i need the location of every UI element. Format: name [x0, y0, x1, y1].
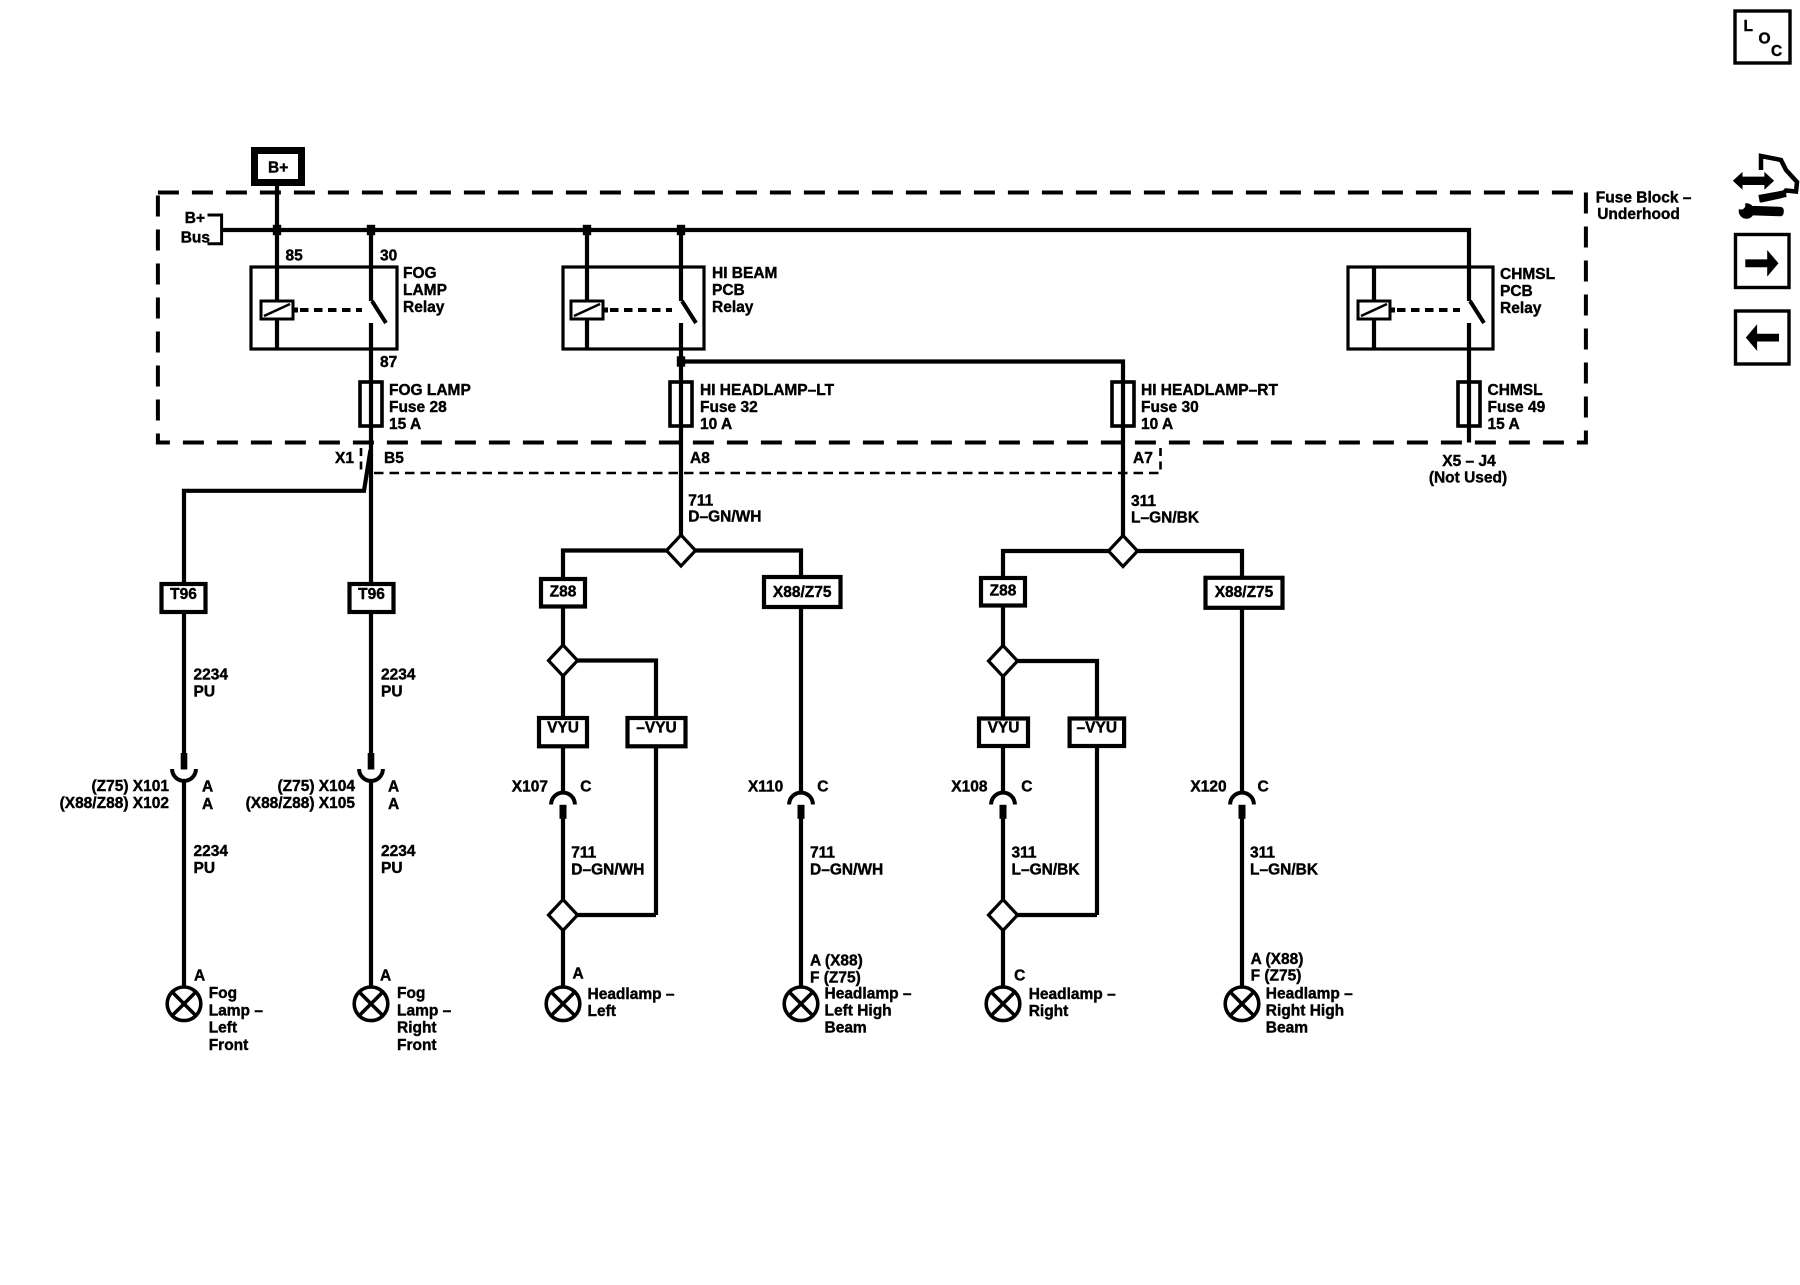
svg-text:A: A [388, 796, 399, 813]
svg-text:311: 311 [1131, 493, 1156, 510]
svg-text:X120: X120 [1190, 779, 1226, 796]
svg-text:T96: T96 [170, 586, 197, 603]
svg-text:T96: T96 [358, 586, 385, 603]
svg-text:10 A: 10 A [700, 416, 732, 433]
svg-text:–VYU: –VYU [1077, 720, 1118, 737]
svg-text:(Not Used): (Not Used) [1429, 470, 1507, 487]
svg-text:A7: A7 [1133, 450, 1153, 467]
svg-text:2234: 2234 [381, 843, 416, 860]
svg-text:(Z75) X101: (Z75) X101 [91, 778, 169, 795]
svg-text:Fuse 30: Fuse 30 [1141, 399, 1199, 416]
svg-text:Right High: Right High [1266, 1003, 1344, 1020]
svg-text:X5 – J4: X5 – J4 [1442, 453, 1496, 470]
svg-text:711: 711 [688, 492, 713, 509]
svg-text:L–GN/BK: L–GN/BK [1250, 861, 1319, 878]
svg-text:A: A [388, 779, 399, 796]
svg-text:(X88/Z88) X102: (X88/Z88) X102 [60, 795, 169, 812]
svg-text:15 A: 15 A [389, 416, 421, 433]
svg-text:Headlamp –: Headlamp – [825, 986, 912, 1003]
svg-text:Left: Left [209, 1020, 237, 1037]
svg-text:VYU: VYU [547, 720, 579, 737]
svg-text:(Z75) X104: (Z75) X104 [277, 778, 355, 795]
svg-text:C: C [1021, 779, 1032, 796]
svg-text:A (X88): A (X88) [810, 953, 863, 970]
svg-text:B+: B+ [185, 210, 205, 227]
svg-text:2234: 2234 [381, 667, 416, 684]
svg-text:Right: Right [397, 1020, 437, 1037]
svg-text:711: 711 [571, 844, 596, 861]
svg-text:30: 30 [380, 248, 397, 265]
svg-text:HI HEADLAMP–LT: HI HEADLAMP–LT [700, 382, 835, 399]
svg-text:F (Z75): F (Z75) [810, 969, 861, 986]
svg-text:Beam: Beam [1266, 1020, 1308, 1037]
svg-text:Lamp –: Lamp – [397, 1002, 452, 1019]
svg-text:Z88: Z88 [550, 584, 577, 601]
svg-text:F (Z75): F (Z75) [1251, 968, 1302, 985]
svg-text:Right: Right [1029, 1003, 1069, 1020]
svg-text:A: A [202, 779, 213, 796]
svg-text:Relay: Relay [1500, 300, 1542, 317]
svg-text:PU: PU [194, 684, 216, 701]
svg-text:Front: Front [209, 1037, 249, 1054]
svg-text:A: A [380, 968, 391, 985]
svg-text:PU: PU [381, 684, 403, 701]
svg-text:311: 311 [1012, 844, 1037, 861]
svg-text:HI HEADLAMP–RT: HI HEADLAMP–RT [1141, 382, 1278, 399]
svg-text:FOG: FOG [403, 265, 437, 282]
svg-text:O: O [1759, 31, 1771, 48]
svg-text:10 A: 10 A [1141, 416, 1173, 433]
svg-text:2234: 2234 [194, 667, 229, 684]
svg-text:Z88: Z88 [990, 583, 1017, 600]
svg-text:PU: PU [381, 860, 403, 877]
svg-text:Fuse 28: Fuse 28 [389, 399, 447, 416]
svg-text:Underhood: Underhood [1597, 206, 1680, 223]
svg-text:HI BEAM: HI BEAM [712, 265, 777, 282]
svg-text:Fog: Fog [209, 985, 237, 1002]
svg-text:A8: A8 [690, 450, 710, 467]
svg-text:X108: X108 [951, 779, 988, 796]
svg-text:Fog: Fog [397, 985, 425, 1002]
svg-text:C: C [1014, 968, 1025, 985]
svg-text:VYU: VYU [988, 720, 1020, 737]
svg-text:PCB: PCB [1500, 283, 1533, 300]
svg-text:711: 711 [810, 844, 835, 861]
svg-text:D–GN/WH: D–GN/WH [571, 861, 644, 878]
svg-text:PCB: PCB [712, 282, 745, 299]
svg-text:X88/Z75: X88/Z75 [773, 584, 832, 601]
svg-text:Headlamp –: Headlamp – [1029, 986, 1116, 1003]
svg-text:Fuse Block –: Fuse Block – [1596, 190, 1692, 207]
svg-text:A: A [194, 968, 205, 985]
svg-text:LAMP: LAMP [403, 282, 447, 299]
svg-text:B5: B5 [384, 450, 404, 467]
svg-text:2234: 2234 [194, 843, 229, 860]
svg-text:X110: X110 [748, 779, 783, 796]
svg-text:CHMSL: CHMSL [1488, 382, 1543, 399]
svg-text:C: C [1771, 43, 1782, 60]
svg-text:L: L [1744, 18, 1753, 35]
svg-text:87: 87 [380, 354, 397, 371]
svg-text:311: 311 [1250, 844, 1275, 861]
svg-text:85: 85 [286, 248, 304, 265]
svg-text:Headlamp –: Headlamp – [588, 986, 675, 1003]
svg-text:Headlamp –: Headlamp – [1266, 986, 1353, 1003]
svg-text:A: A [202, 796, 213, 813]
svg-text:X88/Z75: X88/Z75 [1215, 584, 1274, 601]
svg-text:FOG LAMP: FOG LAMP [389, 382, 471, 399]
svg-text:15 A: 15 A [1488, 416, 1520, 433]
svg-text:L–GN/BK: L–GN/BK [1012, 861, 1081, 878]
svg-text:X1: X1 [335, 450, 354, 467]
svg-text:Relay: Relay [712, 299, 754, 316]
svg-text:A: A [573, 966, 584, 983]
svg-text:A (X88): A (X88) [1251, 951, 1304, 968]
svg-text:Fuse 32: Fuse 32 [700, 399, 758, 416]
svg-text:D–GN/WH: D–GN/WH [688, 509, 761, 526]
svg-text:Left High: Left High [825, 1003, 892, 1020]
svg-text:Left: Left [588, 1003, 616, 1020]
svg-text:(X88/Z88) X105: (X88/Z88) X105 [246, 795, 356, 812]
svg-text:Fuse 49: Fuse 49 [1488, 399, 1546, 416]
svg-text:C: C [1258, 779, 1269, 796]
svg-text:Beam: Beam [825, 1020, 867, 1037]
svg-text:B+: B+ [268, 159, 288, 176]
svg-text:–VYU: –VYU [636, 720, 677, 737]
svg-text:D–GN/WH: D–GN/WH [810, 861, 883, 878]
svg-text:Relay: Relay [403, 299, 445, 316]
svg-text:X107: X107 [512, 779, 548, 796]
svg-text:CHMSL: CHMSL [1500, 266, 1555, 283]
svg-text:C: C [817, 779, 828, 796]
svg-text:PU: PU [194, 860, 216, 877]
svg-text:L–GN/BK: L–GN/BK [1131, 510, 1200, 527]
svg-text:Bus: Bus [181, 230, 210, 247]
svg-text:Lamp –: Lamp – [209, 1002, 264, 1019]
svg-text:Front: Front [397, 1037, 437, 1054]
svg-text:C: C [580, 779, 591, 796]
